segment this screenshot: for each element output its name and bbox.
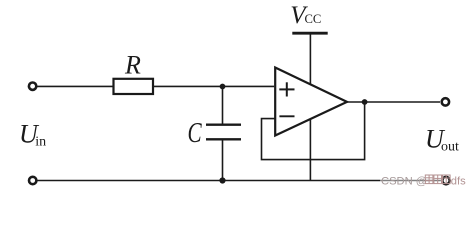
svg-text:R: R	[124, 51, 141, 80]
svg-text:in: in	[35, 135, 46, 150]
svg-text:dfs: dfs	[451, 175, 466, 187]
svg-text:C: C	[188, 117, 203, 149]
svg-text:CC: CC	[305, 12, 322, 26]
svg-text:out: out	[441, 140, 459, 155]
svg-text:CSDN @: CSDN @	[381, 175, 427, 187]
